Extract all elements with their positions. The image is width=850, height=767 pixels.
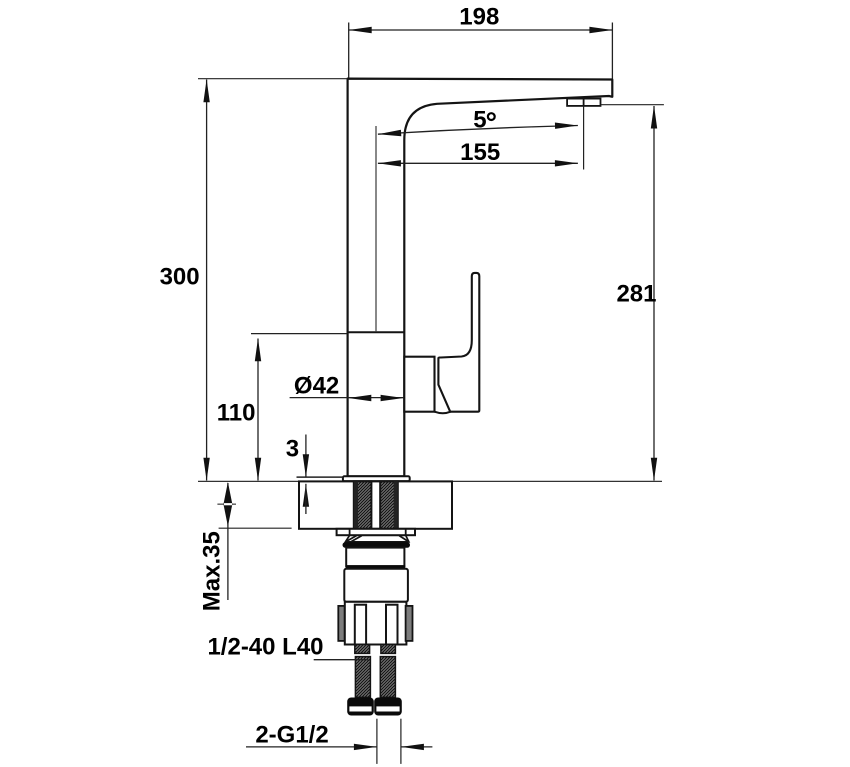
spout aerator [567, 99, 600, 106]
threaded shank right (hatched) [380, 481, 398, 528]
body joint line [348, 331, 405, 333]
dimension 281 [601, 105, 664, 481]
left mounting prong [355, 605, 366, 645]
thick black band [346, 565, 406, 569]
left thread stub [355, 645, 370, 654]
o-ring seal (black band) [343, 542, 411, 548]
dimension 2-G1/2 [246, 719, 432, 764]
dimension Max.35 [199, 482, 292, 611]
threaded shank left (hatched) [354, 481, 372, 528]
left hose cap [347, 698, 374, 716]
svg-text:2-G1/2: 2-G1/2 [255, 722, 328, 749]
left hose braid [355, 657, 370, 698]
left side tab [338, 606, 344, 641]
right thread stub [381, 645, 396, 654]
friction washer [345, 535, 409, 542]
dimension 198 [349, 4, 613, 79]
body flange [343, 476, 410, 481]
svg-text:198: 198 [459, 4, 499, 31]
svg-text:110: 110 [217, 400, 256, 427]
right hose braid [380, 657, 395, 698]
svg-text:1/2-40 L40: 1/2-40 L40 [207, 633, 323, 660]
cartridge housing [404, 357, 434, 412]
svg-text:300: 300 [160, 263, 200, 290]
label 1/2-40 L40 [207, 633, 368, 660]
dimension 5 degrees [378, 106, 578, 136]
svg-text:3: 3 [286, 435, 299, 462]
faucet body outline (column + spout) [348, 79, 613, 477]
svg-text:5: 5 [473, 106, 486, 133]
dimension 300 [160, 79, 348, 481]
handle ball joint arc [435, 412, 452, 414]
dimension diameter 42 [290, 373, 404, 402]
dimension 110 [217, 334, 347, 481]
body centerline [375, 126, 377, 332]
right side tab [406, 606, 413, 641]
escutcheon base plate [299, 481, 452, 528]
right mounting prong [386, 605, 398, 645]
right hose cap [374, 698, 402, 716]
svg-text:Ø42: Ø42 [294, 373, 339, 400]
handle lever [438, 273, 479, 412]
mounting bracket body [345, 602, 407, 645]
dimension 155 [378, 107, 584, 170]
countertop reference line [198, 480, 662, 482]
upper shank cylinder [346, 548, 404, 567]
svg-text:155: 155 [460, 139, 500, 166]
svg-text:281: 281 [616, 281, 656, 308]
locknut [337, 529, 415, 535]
lower shank cylinder [344, 569, 408, 602]
dimension 3 [286, 435, 343, 515]
svg-text:Max.35: Max.35 [199, 531, 226, 611]
